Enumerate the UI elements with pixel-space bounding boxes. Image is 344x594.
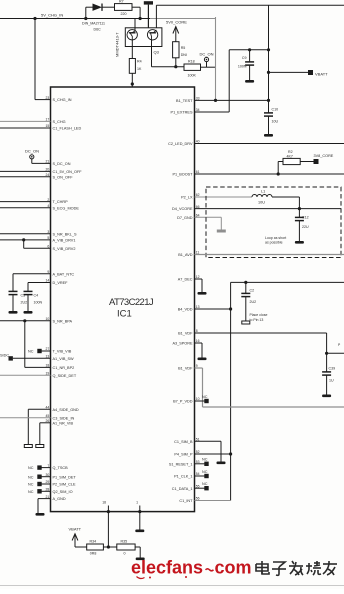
- svg-text:100N: 100N: [34, 301, 43, 305]
- wire pin26 A1_NR_VIB: [40, 419, 74, 445]
- svg-text:T_CHRP: T_CHRP: [53, 200, 69, 204]
- svg-text:NC: NC: [28, 490, 34, 494]
- svg-text:5: 5: [47, 236, 49, 240]
- svg-text:R34: R34: [90, 539, 97, 543]
- svg-text:A3_SPORE: A3_SPORE: [172, 342, 193, 346]
- svg-text:3V8_CORE: 3V8_CORE: [314, 154, 334, 158]
- logo elecfans.com: [131, 558, 252, 579]
- wire pin24 S_ON_OFF: [0, 173, 73, 179]
- svg-text:B1_AVD: B1_AVD: [178, 253, 193, 257]
- transistor Q3 right PNP: [147, 30, 157, 67]
- svg-text:20: 20: [46, 168, 50, 172]
- wire pin62 P2_LX: [181, 193, 252, 199]
- svg-text:23: 23: [46, 96, 50, 100]
- wire pin20 C1_5V_ON_OFF: [0, 168, 82, 174]
- svg-text:NC: NC: [28, 475, 34, 479]
- wire pin6 S_VIB_DRV2: [24, 240, 76, 251]
- svg-text:P1_BOOST: P1_BOOST: [172, 173, 193, 177]
- svg-text:NC: NC: [202, 470, 208, 474]
- svg-text:D7_GND: D7_GND: [177, 216, 193, 220]
- node VBATT flag: [267, 70, 328, 76]
- svg-text:DC_ON: DC_ON: [25, 148, 39, 153]
- wire pin12 A7_DEC: [178, 275, 202, 292]
- svg-text:C1_INT: C1_INT: [179, 499, 193, 503]
- svg-text:DC_ON: DC_ON: [200, 52, 214, 57]
- node pin23 S_CHG_IN: [46, 96, 72, 102]
- node pin53 S1_RESET NC: [169, 458, 209, 467]
- wire R35 to ground: [135, 547, 140, 558]
- svg-text:P2_SIM_CLE: P2_SIM_CLE: [53, 483, 76, 487]
- svg-text:Loop as short: Loop as short: [265, 236, 286, 240]
- svg-text:24: 24: [46, 173, 50, 177]
- ground below A_GND: [36, 513, 45, 516]
- node SIDC flag: [0, 354, 51, 361]
- svg-text:R7: R7: [119, 0, 124, 4]
- svg-text:P2_LX: P2_LX: [181, 196, 193, 200]
- capacitor C9 100N: [238, 48, 254, 80]
- svg-text:elecfans: elecfans: [131, 558, 203, 578]
- svg-text:5V0_CORE: 5V0_CORE: [166, 20, 187, 25]
- wire pin8 B1_VDF: [178, 329, 344, 355]
- svg-text:S_ECG_MODE: S_ECG_MODE: [53, 206, 80, 210]
- diode D6 DIN_MA27111: [82, 4, 115, 32]
- svg-text:22U: 22U: [302, 225, 309, 229]
- ground below C4: [24, 311, 33, 314]
- wire diode branch up: [84, 7, 93, 20]
- wire bottom pin18 down to R34 junction: [107, 512, 109, 547]
- svg-text:C2: C2: [250, 289, 255, 293]
- svg-text:B1_VDF: B1_VDF: [178, 332, 193, 336]
- pad below pin26: [36, 445, 44, 448]
- svg-text:18: 18: [46, 364, 50, 368]
- svg-text:10: 10: [46, 317, 50, 321]
- svg-text:1U: 1U: [329, 379, 334, 383]
- svg-text:C10: C10: [272, 108, 279, 112]
- op-amp IC1 AT73C221J body: [51, 87, 195, 512]
- svg-text:Place close: Place close: [250, 313, 268, 317]
- svg-text:C1_FLASH_LED: C1_FLASH_LED: [53, 127, 82, 131]
- wire pin2 T_CHRP: [0, 198, 68, 204]
- ground below pin1: [135, 530, 144, 533]
- svg-text:DNI: DNI: [181, 53, 187, 57]
- svg-text:P1_CLK_1: P1_CLK_1: [174, 475, 192, 479]
- svg-text:P1_EXTRES: P1_EXTRES: [171, 111, 193, 115]
- node pin7 Q_TSCB NC: [28, 464, 68, 470]
- svg-text:VBATT: VBATT: [315, 71, 328, 76]
- svg-text:T_VIB_VIB: T_VIB_VIB: [53, 350, 72, 354]
- svg-text:21: 21: [46, 495, 50, 499]
- svg-text:C1_DATA_1: C1_DATA_1: [172, 487, 193, 491]
- wire pin10 S_NR_BPA: [0, 317, 73, 367]
- wire pin33 B1_TEST: [176, 97, 268, 103]
- wire R7 out to main: [132, 7, 142, 20]
- resistor R5 DNI: [173, 42, 187, 67]
- svg-text:C3_SIDE_IN: C3_SIDE_IN: [53, 416, 75, 420]
- wire pin44 A4_SIDE_GND: [28, 406, 79, 445]
- svg-text:S1_RESET_1: S1_RESET_1: [169, 462, 193, 466]
- svg-text:7: 7: [47, 464, 49, 468]
- terminal DC_ON left: [25, 148, 51, 163]
- svg-text:C39: C39: [329, 367, 336, 371]
- svg-text:R35: R35: [121, 539, 128, 543]
- wire S_CHG_IN drop to pin 23: [35, 19, 51, 100]
- page bottom rule: [0, 585, 344, 587]
- svg-text:C12: C12: [302, 216, 309, 220]
- wire pin64 P2_PGND: [177, 214, 221, 230]
- svg-text:S_CHG_IN: S_CHG_IN: [53, 98, 72, 102]
- node pin21 S_DC_ON: [46, 160, 71, 166]
- junction at x35: [33, 17, 36, 20]
- svg-text:NC: NC: [202, 458, 208, 462]
- ground below A7_DEC: [198, 292, 207, 295]
- wire bottom pin1 to ground: [139, 512, 141, 530]
- svg-text:NC: NC: [28, 483, 34, 487]
- svg-text:SIDC: SIDC: [0, 354, 9, 358]
- svg-text:S_DC_ON: S_DC_ON: [53, 162, 71, 166]
- pad below C2: [242, 321, 250, 324]
- svg-text:P1_SIM_DET: P1_SIM_DET: [53, 475, 77, 479]
- svg-text:19: 19: [46, 371, 50, 375]
- wire pin5 A_VIB_DRV1: [0, 236, 75, 242]
- node VBATT arrow bottom: [69, 527, 87, 548]
- capacitor C2 2U2: [241, 281, 256, 321]
- logo chinese 电子发烧友: [256, 561, 337, 575]
- svg-text:220: 220: [121, 12, 127, 16]
- svg-text:15: 15: [46, 124, 50, 128]
- capacitor C10 10U: [264, 99, 278, 134]
- ground below C39: [322, 395, 331, 398]
- svg-text:18: 18: [102, 501, 106, 505]
- svg-text:B1_VDF: B1_VDF: [178, 367, 193, 371]
- node pin29 P2_SIM_CLE NC: [28, 480, 76, 486]
- svg-text:27: 27: [46, 347, 50, 351]
- svg-text:AT73C221J: AT73C221J: [109, 297, 154, 308]
- wire pin17 S_CHG: [0, 118, 66, 124]
- power flag 5V bar: [144, 1, 153, 30]
- svg-text:NC: NC: [202, 395, 208, 399]
- wire pin52 P4_SIM_P: [174, 450, 232, 456]
- node pin55 C1_DATA NC: [172, 482, 209, 491]
- resistor R34 0R8: [87, 539, 104, 555]
- svg-text:S_ON_OFF: S_ON_OFF: [53, 175, 74, 179]
- wire pin14 D_VREF: [28, 279, 68, 288]
- wire pin34 P1_EXTRES: [171, 108, 230, 114]
- svg-text:14: 14: [46, 279, 50, 283]
- svg-text:13: 13: [46, 355, 50, 359]
- svg-text:B7_P_VDD: B7_P_VDD: [173, 400, 193, 404]
- svg-text:S_CHG: S_CHG: [53, 120, 66, 124]
- svg-text:Q_SIDE_DET: Q_SIDE_DET: [53, 374, 77, 378]
- svg-text:NC: NC: [202, 482, 208, 486]
- wire pin15 C1_FLASH_LED: [0, 124, 81, 130]
- svg-text:A4_SIDE_GND: A4_SIDE_GND: [53, 408, 79, 412]
- wire 5V corner to B1_TEST (gray): [215, 17, 217, 100]
- svg-text:100K: 100K: [188, 74, 197, 78]
- wire right emitter riser and top rail: [156, 5, 344, 30]
- svg-text:9: 9: [47, 270, 49, 274]
- wire pin9 B1_VDF2 (gray): [178, 364, 344, 407]
- wire pin13 B4_VDD: [178, 305, 232, 311]
- wire pin3 S_NR_BKL_S: [0, 230, 77, 236]
- wire pin51 C1_SIM_B: [174, 437, 221, 461]
- svg-text:A_BAT_NTC: A_BAT_NTC: [53, 272, 75, 276]
- junction bottom pin18: [107, 510, 110, 513]
- svg-text:45: 45: [46, 414, 50, 418]
- pad below pin44: [24, 445, 32, 448]
- wire pin4 S_ECG_MODE: [0, 204, 79, 210]
- svg-text:2: 2: [47, 198, 49, 202]
- ground below R35: [136, 558, 145, 561]
- resistor R18 100K: [184, 60, 216, 78]
- svg-text:28: 28: [46, 488, 50, 492]
- resistor R4 1K: [129, 59, 142, 74]
- svg-text:IC1: IC1: [117, 309, 132, 320]
- svg-text:2U2: 2U2: [250, 300, 257, 304]
- svg-text:5V_CHG_IN: 5V_CHG_IN: [41, 13, 63, 18]
- svg-text:17: 17: [46, 118, 50, 122]
- ground below C12: [295, 241, 304, 244]
- svg-text:D_VREF: D_VREF: [53, 281, 69, 285]
- pad PGND: [217, 230, 226, 233]
- svg-text:A1_NR_VIB: A1_NR_VIB: [53, 421, 74, 425]
- capacitor C3 2U2: [9, 288, 28, 311]
- svg-text:to Pin 13: to Pin 13: [250, 318, 264, 322]
- svg-text:A7_DEC: A7_DEC: [178, 278, 193, 282]
- svg-text:S_NR_BKL_S: S_NR_BKL_S: [53, 232, 78, 236]
- ground below A3_SPORE: [198, 358, 207, 361]
- ground below C9: [245, 80, 254, 83]
- svg-text:C9: C9: [242, 56, 247, 60]
- svg-text:A_VIB_DRV1: A_VIB_DRV1: [53, 239, 76, 243]
- node pin28 Q2_SIM_IO NC: [28, 488, 73, 494]
- svg-text:A_GND: A_GND: [53, 497, 66, 501]
- transistor Q3 left PNP: [127, 19, 137, 59]
- wire pin61 P1_BOOST: [172, 170, 344, 176]
- svg-text:com: com: [215, 558, 252, 578]
- svg-text:6: 6: [47, 245, 49, 249]
- svg-text:100N: 100N: [238, 65, 247, 69]
- svg-text:DIN_MA27111: DIN_MA27111: [82, 22, 105, 26]
- svg-text:26: 26: [46, 419, 50, 423]
- svg-text:R5: R5: [181, 46, 186, 50]
- svg-text:C2_LED_DRV: C2_LED_DRV: [168, 142, 193, 146]
- svg-text:as possible: as possible: [265, 241, 283, 245]
- wire pin56 C1_INT: [179, 497, 230, 503]
- svg-text:S_VIB_DRV2: S_VIB_DRV2: [53, 247, 76, 251]
- node pin30 P1_SIM_DET NC: [28, 473, 76, 479]
- svg-text:C1_SIM_B: C1_SIM_B: [174, 440, 193, 444]
- svg-text:C1_5V_ON_OFF: C1_5V_ON_OFF: [53, 170, 83, 174]
- wire Q3 collector to R5/R18: [152, 65, 201, 68]
- capacitor C4 100N: [24, 288, 43, 311]
- note place close: [250, 313, 268, 322]
- inductor L1 10U: [252, 189, 299, 208]
- pin marks below top edge: [131, 88, 135, 97]
- wire pin45 C3_SIDE_IN: [0, 414, 74, 420]
- dashed box loop note: [206, 187, 341, 258]
- svg-text:R4: R4: [137, 60, 142, 64]
- wire R4 to IC top pin: [131, 73, 134, 87]
- resistor R7 220: [115, 0, 133, 16]
- svg-text:MMDT4413-7: MMDT4413-7: [115, 32, 120, 57]
- wire pin66 D4_VCORE: [172, 205, 341, 211]
- resistor R2 4K7: [278, 150, 313, 174]
- wire pin40 C2_LED_DRV: [168, 140, 344, 146]
- svg-text:Q_TSCB: Q_TSCB: [53, 466, 69, 470]
- node bottom pin18: [102, 501, 108, 512]
- node 3V8_CORE flag: [314, 154, 334, 164]
- wire VDD rail top: [231, 282, 344, 500]
- svg-text:0: 0: [124, 552, 126, 556]
- svg-text:C1_NR_BP2: C1_NR_BP2: [53, 366, 75, 370]
- svg-text:A1_VIB_SW: A1_VIB_SW: [53, 357, 75, 361]
- svg-text:0R8: 0R8: [90, 552, 97, 556]
- svg-text:R18: R18: [188, 60, 195, 64]
- wire EXTRES top segment: [229, 48, 270, 112]
- terminal DC_ON top: [200, 52, 214, 68]
- wire pin9 A_BAT_NTC: [13, 270, 74, 288]
- wire VBATT bus vertical: [268, 5, 270, 100]
- svg-text:21: 21: [46, 160, 50, 164]
- svg-text:NC: NC: [28, 350, 34, 354]
- junction bottom pin1: [138, 510, 141, 513]
- node pin27 T_VIB_VIB NC: [28, 347, 72, 353]
- wire 5V_CHG_IN main horizontal: [0, 18, 216, 20]
- wire pin21 A_GND: [38, 495, 66, 513]
- wire R34 to R35: [103, 545, 116, 548]
- svg-text:4K7: 4K7: [287, 154, 293, 158]
- svg-text:1K: 1K: [137, 67, 142, 71]
- svg-text:C4: C4: [34, 294, 39, 298]
- svg-text:L1: L1: [261, 189, 265, 193]
- ground below C1_SIM_B: [217, 462, 226, 465]
- node pin54 P1_CLK NC: [174, 470, 209, 479]
- wire pin16 A3_SPORE: [172, 339, 202, 357]
- svg-text:NC: NC: [28, 466, 34, 470]
- node bottom pin1: [136, 501, 140, 512]
- svg-text:D6C: D6C: [94, 28, 102, 32]
- svg-text:10U: 10U: [272, 120, 279, 124]
- svg-text:B1_TEST: B1_TEST: [176, 99, 193, 103]
- ground below C3: [9, 311, 18, 314]
- svg-text:29: 29: [46, 480, 50, 484]
- node pin13 A1_VIB_SW: [46, 355, 75, 361]
- svg-text:P4_SIM_P: P4_SIM_P: [174, 453, 193, 457]
- svg-text:B4_VDD: B4_VDD: [178, 308, 193, 312]
- svg-text:D4_VCORE: D4_VCORE: [172, 207, 193, 211]
- wire pin11 B1_AVD: [178, 251, 344, 257]
- svg-text:44: 44: [46, 406, 50, 410]
- transistor Q3 MMDT4413 box: [115, 28, 162, 57]
- resistor R35 0: [117, 539, 135, 555]
- svg-text:2U2: 2U2: [21, 301, 28, 305]
- svg-text:10U: 10U: [258, 201, 265, 205]
- capacitor C39 1U: [322, 353, 335, 394]
- svg-text:VBATT: VBATT: [69, 527, 82, 532]
- node 5V0_CORE arrow: [166, 20, 187, 42]
- node 5V_CHG_IN label: [41, 13, 63, 18]
- svg-text:S_NR_BPA: S_NR_BPA: [53, 319, 73, 323]
- svg-text:Q2_SIM_IO: Q2_SIM_IO: [53, 490, 73, 494]
- wire pin18 C1_NR_BP2: [25, 364, 74, 370]
- capacitor C12 22U: [295, 209, 309, 241]
- wire pin19 Q_SIDE_DET: [0, 371, 77, 377]
- svg-text:4: 4: [47, 204, 49, 208]
- node pin10 B7_P_VDD NC: [173, 395, 209, 404]
- svg-text:3: 3: [47, 230, 49, 234]
- svg-text:30: 30: [46, 473, 50, 477]
- svg-text:Q3: Q3: [154, 50, 160, 55]
- svg-text:1: 1: [136, 501, 138, 505]
- ground below C10: [264, 134, 273, 137]
